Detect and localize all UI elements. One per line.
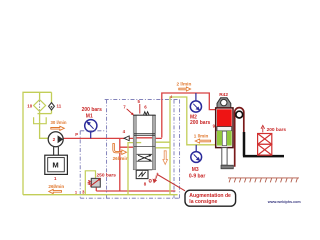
- svg-text:P: P: [75, 132, 78, 137]
- proportional valve body: [133, 112, 155, 179]
- filter 10: [27, 100, 45, 112]
- wire: suction from tank to pump: [40, 121, 49, 138]
- wire: relief valve outlet: [95, 188, 97, 191]
- wire: red branch into valve: [120, 146, 141, 148]
- svg-text:26l/min: 26l/min: [48, 184, 64, 189]
- wire: tank return riser left (green): [23, 92, 52, 194]
- svg-text:200 bars: 200 bars: [190, 120, 211, 126]
- bottom tank line (green): [23, 194, 178, 196]
- pump 2: [48, 132, 63, 147]
- svg-text:M1: M1: [86, 114, 93, 120]
- svg-text:M: M: [52, 161, 58, 170]
- svg-text:R42: R42: [219, 92, 228, 98]
- cylinder R42: [213, 92, 234, 169]
- svg-text:26l/min: 26l/min: [113, 156, 129, 161]
- flow arrow right (pump inlet): [51, 126, 65, 130]
- check valve 11: [49, 103, 62, 110]
- wire: A line valve to cylinder (red): [162, 93, 216, 138]
- rod eye cap: [217, 98, 231, 108]
- svg-text:200 bars: 200 bars: [267, 127, 287, 133]
- relief valve 3: [82, 171, 116, 195]
- svg-text:10: 10: [27, 104, 32, 109]
- check element 4 on P line: [124, 136, 129, 141]
- elbow flow arrow (orange): [113, 144, 127, 155]
- svg-text:www.webiphs.com: www.webiphs.com: [267, 200, 302, 204]
- svg-text:la consigne: la consigne: [189, 199, 217, 205]
- svg-text:30 l/min: 30 l/min: [51, 120, 67, 125]
- down flow arrow (return riser): [163, 151, 168, 165]
- wire: red bottom line: [96, 190, 175, 192]
- barrel: [216, 108, 233, 148]
- gauge M2: [190, 93, 211, 126]
- rod: [222, 148, 227, 166]
- wire: P branch down (red): [119, 138, 121, 191]
- flow arrow left (return): [49, 189, 62, 193]
- svg-text:2 l/min: 2 l/min: [177, 82, 192, 87]
- spring 6 on top: [144, 112, 149, 115]
- X position arrows: [138, 155, 151, 160]
- svg-text:11: 11: [57, 104, 62, 109]
- enclosure dash-dot lines: [80, 100, 180, 199]
- green return loop rectangle: [170, 97, 216, 195]
- valve T return right (green): [153, 147, 171, 149]
- svg-text:250 bars: 250 bars: [97, 173, 117, 179]
- shaft pump-motor: [54, 147, 59, 155]
- pulley: [236, 111, 243, 118]
- svg-text:2: 2: [53, 137, 56, 142]
- wire: filter branch down: [39, 92, 41, 99]
- fork bracket: [243, 132, 284, 156]
- load crates: [258, 134, 272, 156]
- gauge M3: [189, 145, 205, 180]
- callout box: [185, 190, 236, 206]
- motor M (1): [45, 155, 68, 174]
- valve T return left (green): [128, 143, 135, 195]
- svg-text:4: 4: [170, 95, 172, 99]
- cable over pulley: [235, 108, 244, 167]
- svg-text:M3: M3: [192, 167, 199, 173]
- svg-text:200 bars: 200 bars: [82, 107, 103, 113]
- callout pointer: [158, 175, 185, 191]
- flow arrowhead into valve (red): [141, 145, 146, 149]
- wire: P line (red) pump to valve to riser: [63, 93, 215, 191]
- tank: [34, 117, 47, 124]
- gauge M1: [82, 107, 103, 138]
- ground hatching: [228, 178, 299, 183]
- svg-text:1 l/min: 1 l/min: [194, 133, 209, 138]
- load label 200 bars with up arrow: [261, 125, 265, 132]
- svg-text:0-9 bar: 0-9 bar: [189, 174, 205, 180]
- solenoid 8: [136, 170, 148, 178]
